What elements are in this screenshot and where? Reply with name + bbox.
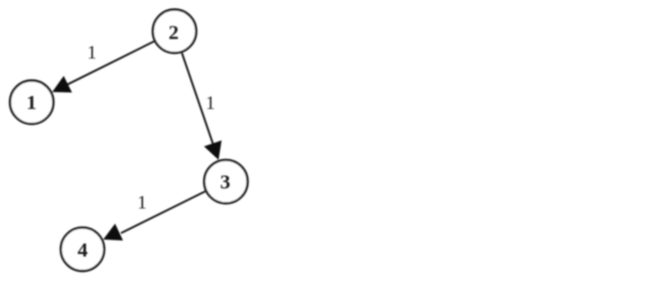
svg-text:4: 4 xyxy=(77,239,87,261)
node 2 circle xyxy=(153,10,196,53)
svg-text:1: 1 xyxy=(26,92,36,114)
wire edge 2 to 3 xyxy=(182,53,214,145)
wire edge 3 to 4 xyxy=(121,191,205,233)
svg-text:1: 1 xyxy=(87,43,97,64)
svg-text:1: 1 xyxy=(206,93,216,114)
arrowhead into node 4 xyxy=(103,224,123,241)
wire edge 2 to 1 xyxy=(66,41,154,85)
svg-text:1: 1 xyxy=(137,193,147,214)
node 3 circle xyxy=(204,160,247,203)
svg-text:3: 3 xyxy=(220,171,230,193)
svg-text:2: 2 xyxy=(168,22,178,44)
arrowhead into node 3 xyxy=(204,140,222,160)
node 4 circle xyxy=(61,228,104,271)
arrowhead into node 1 xyxy=(52,76,72,93)
node 1 circle xyxy=(10,81,53,124)
